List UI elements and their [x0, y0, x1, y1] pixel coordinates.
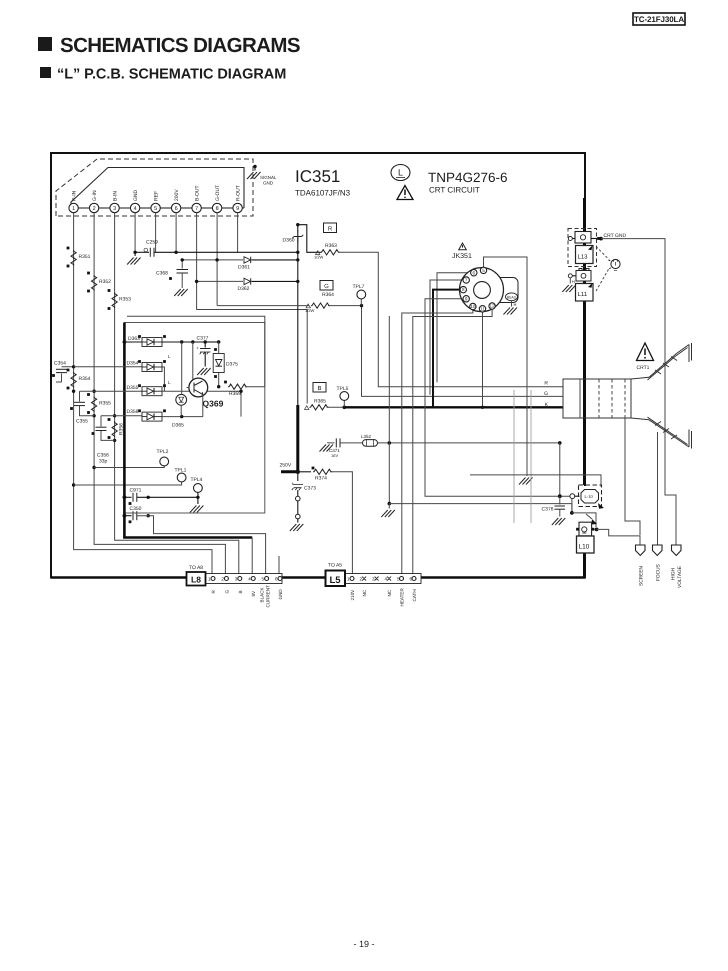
svg-text:2: 2 [221, 577, 224, 582]
svg-text:12: 12 [490, 304, 496, 309]
svg-text:R-OUT: R-OUT [235, 185, 241, 201]
svg-text:B-OUT: B-OUT [194, 185, 200, 201]
svg-text:5: 5 [482, 268, 485, 273]
svg-text:“L” P.C.B. SCHEMATIC DIAGRAM: “L” P.C.B. SCHEMATIC DIAGRAM [57, 67, 286, 83]
svg-text:GND: GND [133, 190, 139, 202]
svg-text:D362: D362 [238, 286, 250, 292]
svg-text:C350: C350 [130, 506, 142, 512]
svg-text:FOCUS: FOCUS [656, 564, 662, 581]
svg-text:8: 8 [216, 206, 219, 212]
svg-text:L10: L10 [579, 544, 590, 551]
svg-text:B: B [238, 590, 243, 593]
svg-text:NC: NC [387, 589, 392, 596]
svg-text:7: 7 [195, 206, 198, 212]
svg-text:TC-21FJ30LA: TC-21FJ30LA [634, 15, 684, 24]
svg-text:SCREEN: SCREEN [639, 565, 645, 586]
svg-text:G: G [544, 391, 548, 397]
svg-text:- 19 -: - 19 - [353, 939, 374, 949]
svg-text:4: 4 [384, 577, 387, 582]
svg-text:R: R [544, 381, 548, 387]
svg-text:R353: R353 [119, 297, 131, 303]
svg-text:6: 6 [473, 270, 476, 275]
svg-text:L: L [168, 354, 171, 359]
svg-text:2: 2 [359, 577, 362, 582]
svg-text:C376: C376 [542, 507, 554, 513]
svg-text:TPL7: TPL7 [353, 284, 365, 290]
svg-text:C373: C373 [304, 486, 316, 492]
svg-text:C355: C355 [76, 419, 88, 425]
svg-text:HIGH: HIGH [671, 567, 677, 580]
svg-text:L-10: L-10 [585, 494, 594, 499]
svg-text:HEATER: HEATER [400, 588, 405, 607]
svg-text:+: + [292, 481, 295, 486]
svg-text:200V: 200V [174, 189, 180, 201]
svg-text:JK351: JK351 [452, 253, 472, 260]
svg-text:D356: D356 [127, 409, 139, 415]
svg-text:D361: D361 [238, 265, 250, 271]
svg-text:3: 3 [113, 206, 116, 212]
svg-text:G: G [224, 590, 229, 594]
svg-text:8: 8 [462, 287, 465, 292]
svg-text:REF: REF [153, 191, 159, 201]
svg-text:D355: D355 [127, 385, 139, 391]
svg-text:TO A8: TO A8 [189, 565, 203, 571]
svg-text:D354: D354 [127, 361, 139, 367]
svg-text:CRT1: CRT1 [637, 365, 650, 371]
svg-text:C368: C368 [156, 271, 168, 277]
svg-text:5: 5 [154, 206, 157, 212]
svg-text:GND: GND [263, 181, 274, 186]
svg-text:L13: L13 [578, 254, 589, 261]
svg-text:TNP4G276-6: TNP4G276-6 [428, 170, 508, 185]
svg-text:R352: R352 [99, 279, 111, 285]
svg-text:C259: C259 [146, 240, 158, 246]
svg-text:R364: R364 [322, 292, 334, 298]
svg-text:CATH: CATH [412, 589, 417, 601]
svg-text:SIGNAL: SIGNAL [260, 175, 277, 180]
svg-text:5: 5 [262, 577, 265, 582]
svg-text:11: 11 [480, 306, 485, 311]
svg-text:1: 1 [72, 206, 75, 212]
svg-text:1/2W: 1/2W [314, 255, 324, 260]
svg-text:B: B [317, 385, 321, 392]
svg-text:C354: C354 [54, 361, 66, 367]
svg-text:GND: GND [278, 589, 283, 600]
svg-text:R-IN: R-IN [71, 190, 77, 201]
svg-text:7: 7 [465, 278, 468, 283]
svg-text:33p: 33p [99, 459, 108, 465]
svg-text:IC351: IC351 [295, 167, 340, 186]
svg-text:R355: R355 [99, 401, 111, 407]
svg-text:10: 10 [470, 304, 476, 309]
svg-text:R354: R354 [79, 376, 91, 382]
svg-text:TDA6107JF/N3: TDA6107JF/N3 [295, 189, 351, 198]
svg-text:9: 9 [236, 206, 239, 212]
svg-text:250V: 250V [280, 463, 292, 469]
svg-text:+: + [196, 346, 199, 351]
svg-text:NC: NC [362, 589, 367, 596]
svg-text:16V: 16V [331, 453, 338, 458]
svg-text:1/2W: 1/2W [305, 308, 315, 313]
svg-text:R351: R351 [79, 254, 91, 260]
svg-text:D360: D360 [283, 238, 295, 244]
svg-text:L5: L5 [329, 575, 341, 586]
svg-text:210V: 210V [350, 589, 355, 601]
svg-text:L: L [398, 168, 403, 178]
svg-text:R: R [328, 226, 333, 233]
svg-text:1: 1 [208, 577, 211, 582]
svg-text:D375: D375 [226, 362, 238, 368]
svg-text:TO A5: TO A5 [328, 563, 342, 569]
svg-text:2: 2 [93, 206, 96, 212]
svg-text:C377: C377 [197, 336, 209, 342]
svg-text:4: 4 [248, 577, 251, 582]
svg-text:G: G [324, 283, 329, 290]
svg-text:CURRENT: CURRENT [266, 585, 271, 608]
svg-text:H: H [572, 279, 575, 284]
svg-text:H: H [514, 302, 517, 307]
svg-text:Q369: Q369 [203, 399, 224, 409]
svg-text:SCHEMATICS DIAGRAMS: SCHEMATICS DIAGRAMS [60, 34, 300, 57]
svg-text:C971: C971 [130, 488, 142, 494]
svg-text:L11: L11 [578, 291, 588, 298]
svg-text:1: 1 [347, 577, 350, 582]
svg-text:TPL5: TPL5 [337, 386, 349, 392]
svg-text:8V: 8V [251, 590, 256, 597]
svg-text:G-IN: G-IN [92, 190, 98, 201]
svg-text:R: R [211, 590, 216, 594]
svg-text:BEAD: BEAD [507, 295, 517, 299]
svg-text:CRT CIRCUIT: CRT CIRCUIT [429, 186, 480, 195]
svg-text:R365: R365 [314, 399, 326, 405]
svg-text:3: 3 [235, 577, 238, 582]
svg-text:BLACK: BLACK [260, 586, 265, 602]
svg-text:TPL1: TPL1 [175, 468, 187, 474]
svg-text:R369: R369 [229, 391, 241, 397]
svg-text:TPL4: TPL4 [191, 477, 203, 483]
svg-text:D365: D365 [172, 423, 184, 429]
svg-text:6: 6 [175, 206, 178, 212]
svg-text:L8: L8 [191, 575, 201, 585]
svg-text:G-OUT: G-OUT [215, 185, 221, 201]
svg-text:R363: R363 [325, 243, 337, 249]
svg-text:4: 4 [134, 206, 137, 212]
svg-text:L: L [168, 380, 171, 385]
svg-text:6: 6 [275, 577, 278, 582]
svg-text:9: 9 [465, 296, 468, 301]
svg-text:B-IN: B-IN [112, 191, 118, 201]
svg-text:3: 3 [372, 577, 375, 582]
svg-text:TPL2: TPL2 [157, 449, 169, 455]
svg-text:R374: R374 [315, 476, 327, 482]
svg-text:L352: L352 [361, 434, 372, 439]
svg-text:VOLTAGE: VOLTAGE [677, 566, 683, 588]
